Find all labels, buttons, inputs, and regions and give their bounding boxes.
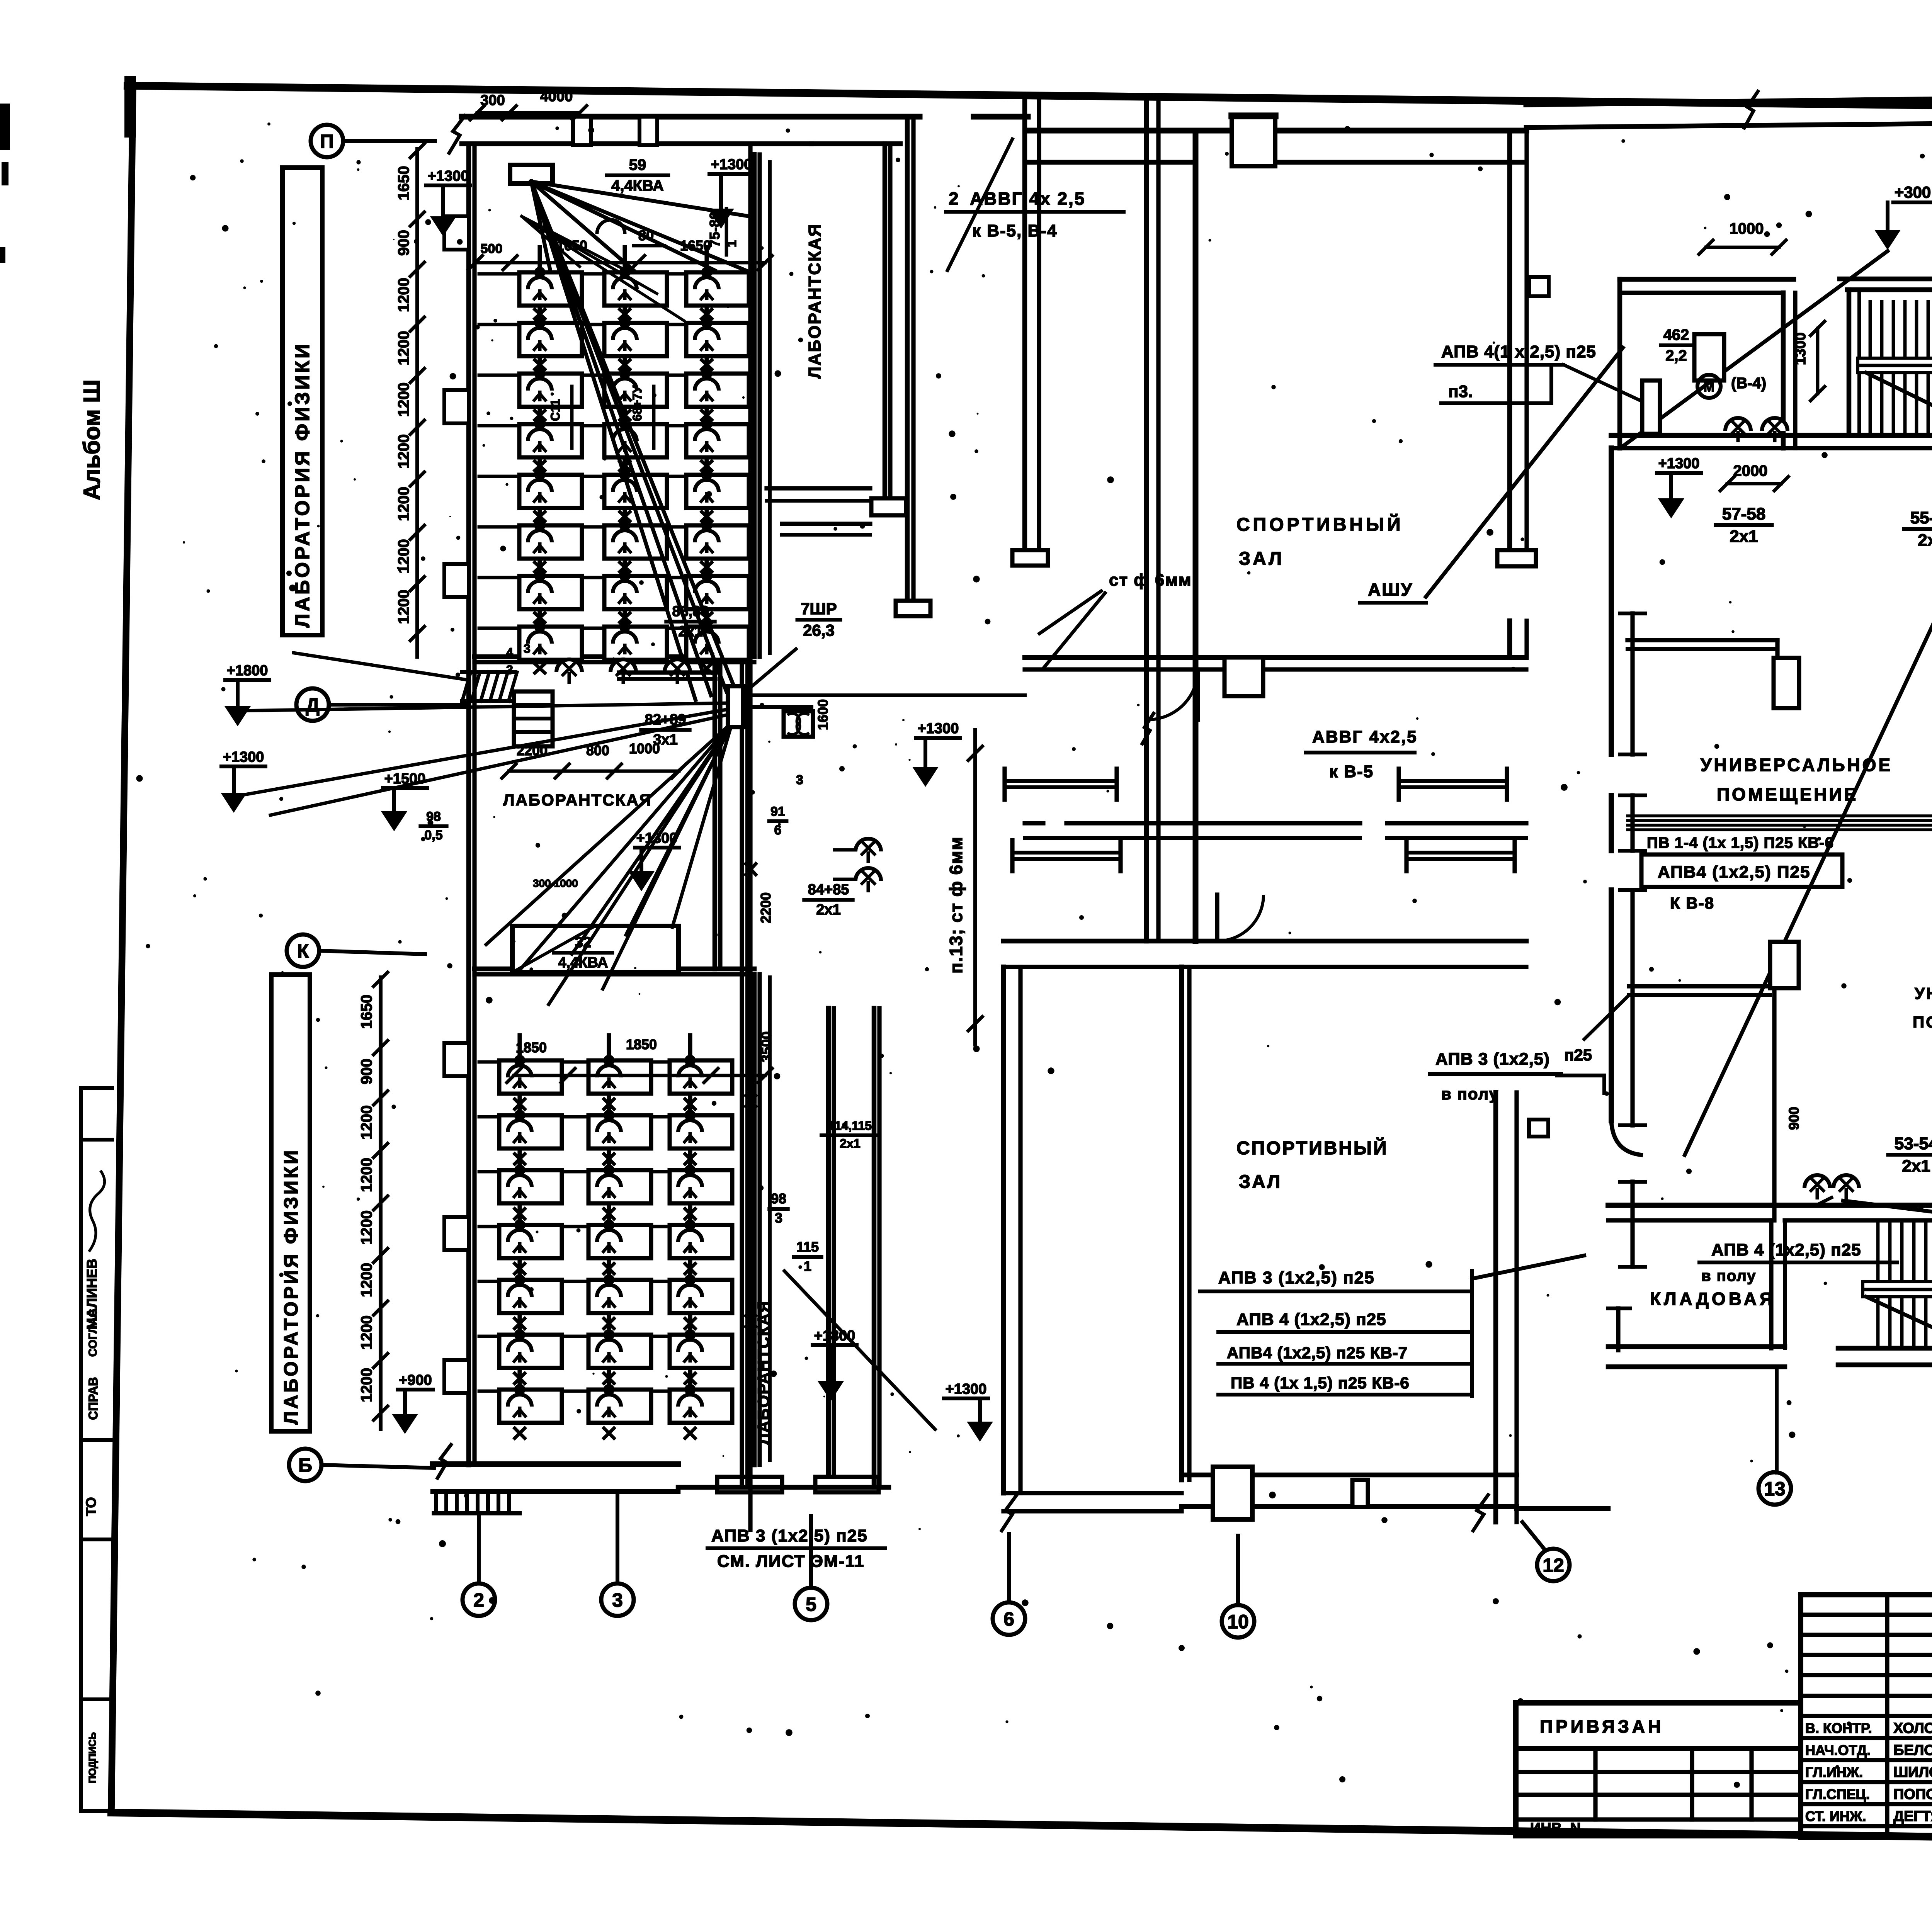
svg-text:К В-8: К В-8 [1670,894,1714,912]
svg-text:АПВ 4 (1х2,5) п25: АПВ 4 (1х2,5) п25 [1711,1240,1861,1259]
svg-text:462: 462 [1663,326,1689,343]
svg-text:+1300: +1300 [918,720,959,737]
svg-text:6: 6 [1003,1608,1014,1630]
svg-text:1650: 1650 [395,166,412,200]
svg-text:4,4КВА: 4,4КВА [611,177,664,194]
svg-text:3: 3 [506,663,513,677]
svg-text:+1300: +1300 [428,168,469,184]
svg-text:3: 3 [775,1210,782,1226]
svg-text:Д: Д [306,694,320,716]
svg-text:М: М [1704,380,1714,395]
svg-text:4000: 4000 [540,88,573,105]
svg-text:2: 2 [473,1589,484,1611]
svg-text:26,3: 26,3 [803,621,835,639]
svg-text:К: К [297,940,309,962]
svg-text:500: 500 [481,241,503,256]
svg-text:1200: 1200 [358,1263,375,1297]
svg-text:АПВ 3 (1х2,5): АПВ 3 (1х2,5) [1435,1050,1550,1069]
svg-text:ГЛ.ИНЖ.: ГЛ.ИНЖ. [1805,1764,1863,1780]
svg-text:ТО: ТО [83,1497,99,1516]
svg-text:800: 800 [586,742,609,758]
svg-text:1200: 1200 [358,1315,375,1350]
svg-text:7ШР: 7ШР [801,600,837,618]
svg-text:88,83: 88,83 [672,603,709,620]
svg-text:АПВ 4 (1х2,5) п25: АПВ 4 (1х2,5) п25 [1236,1310,1386,1329]
svg-text:13: 13 [1764,1478,1786,1500]
svg-text:ПОМЕЩЕНИЕ: ПОМЕЩЕНИЕ [1913,1013,1932,1031]
svg-text:СПОРТИВНЫЙ: СПОРТИВНЫЙ [1236,514,1404,535]
svg-text:+1300: +1300 [946,1381,987,1397]
svg-text:АПВ 3 (1х2,5) п25: АПВ 3 (1х2,5) п25 [1218,1268,1375,1287]
svg-text:53-54: 53-54 [1895,1134,1932,1153]
svg-text:3: 3 [612,1589,623,1611]
svg-text:В. КОНТР.: В. КОНТР. [1805,1720,1872,1736]
svg-text:1200: 1200 [395,487,412,521]
svg-text:68+7У: 68+7У [630,385,644,421]
svg-text:59: 59 [629,156,646,173]
svg-text:3: 3 [796,773,803,787]
svg-text:АПВ4 (1х2,5) П25: АПВ4 (1х2,5) П25 [1658,863,1811,882]
svg-text:ШИЛОВ: ШИЛОВ [1893,1764,1932,1780]
svg-text:2х1: 2х1 [1902,1157,1930,1176]
svg-text:1650: 1650 [358,995,375,1029]
svg-text:БЕЛОВ: БЕЛОВ [1893,1742,1932,1758]
svg-text:3: 3 [524,642,531,656]
svg-text:п25: п25 [1564,1046,1592,1064]
svg-text:1000: 1000 [629,741,660,756]
svg-text:УНИВЕРСАЛЬНОЕ: УНИВЕРСАЛЬНОЕ [1701,755,1893,775]
svg-text:1600: 1600 [815,699,831,730]
svg-text:1200: 1200 [395,434,412,469]
svg-text:1850: 1850 [516,1040,547,1055]
svg-text:СПОРТИВНЫЙ: СПОРТИВНЫЙ [1236,1137,1388,1159]
svg-text:1200: 1200 [358,1368,375,1402]
svg-text:1200: 1200 [395,331,412,365]
svg-text:115: 115 [796,1239,819,1255]
svg-text:32: 32 [575,934,591,951]
svg-text:ЛАБОРАНТСКАЯ: ЛАБОРАНТСКАЯ [805,223,824,379]
svg-text:ГЛ.СПЕЦ.: ГЛ.СПЕЦ. [1805,1786,1870,1802]
svg-text:ЛАБОРАНТСКАЯ: ЛАБОРАНТСКАЯ [754,1300,772,1445]
svg-text:ПОДПИСЬ: ПОДПИСЬ [87,1732,98,1783]
svg-text:2х1: 2х1 [816,902,840,918]
svg-text:П: П [320,131,334,152]
svg-text:ПВ 1-4 (1х 1,5) П25 КВ-6: ПВ 1-4 (1х 1,5) П25 КВ-6 [1647,834,1834,851]
svg-text:СОГЛАС: СОГЛАС [87,1309,99,1357]
svg-text:ЛАБОРАНТСКАЯ: ЛАБОРАНТСКАЯ [503,791,652,809]
svg-text:1: 1 [804,1258,811,1274]
svg-text:900: 900 [358,1058,375,1084]
svg-text:4: 4 [506,646,513,659]
svg-text:2х1: 2х1 [678,624,702,640]
svg-text:АВВГ 4х2,5: АВВГ 4х2,5 [1312,727,1418,746]
svg-text:СПРАВ: СПРАВ [86,1377,100,1420]
svg-text:ПОПОВА: ПОПОВА [1893,1786,1932,1803]
svg-text:2х1: 2х1 [1730,527,1758,546]
svg-text:10: 10 [1227,1611,1249,1633]
svg-text:+1800: +1800 [227,663,268,679]
svg-text:С11: С11 [548,399,562,421]
svg-text:п3.: п3. [1448,382,1473,401]
svg-text:АШУ: АШУ [1368,579,1413,600]
svg-text:в полу: в полу [1441,1085,1499,1103]
svg-text:84+85: 84+85 [808,882,849,898]
svg-text:2х1: 2х1 [1918,531,1932,550]
svg-text:0,5: 0,5 [424,828,442,843]
svg-text:ЗАЛ: ЗАЛ [1239,549,1284,569]
svg-text:1850: 1850 [626,1036,657,1052]
svg-text:+1300: +1300 [711,156,752,173]
svg-text:300 1000: 300 1000 [533,877,578,889]
svg-text:900: 900 [395,230,412,256]
svg-text:2,2: 2,2 [1665,347,1687,364]
svg-text:1200: 1200 [358,1210,375,1245]
svg-text:1000: 1000 [1730,220,1764,237]
svg-text:ХОЛОПОВА: ХОЛОПОВА [1893,1720,1932,1736]
svg-text:п.13; ст ф 6мм: п.13; ст ф 6мм [946,836,966,973]
svg-text:+1800: +1800 [814,1328,855,1344]
svg-text:2: 2 [949,189,959,209]
svg-text:АПВ 4(1 х 2,5) п25: АПВ 4(1 х 2,5) п25 [1441,342,1596,361]
svg-text:57-58: 57-58 [1722,505,1766,523]
svg-text:ЛАБОРАТОРИЯ ФИЗИКИ: ЛАБОРАТОРИЯ ФИЗИКИ [291,341,314,628]
svg-text:ЗАЛ: ЗАЛ [1239,1172,1282,1192]
svg-text:98: 98 [771,1191,786,1206]
svg-text:ст ф 6мм: ст ф 6мм [1109,571,1192,590]
svg-text:(В-4): (В-4) [1731,375,1766,392]
svg-text:1300: 1300 [1793,332,1809,365]
svg-text:4,4КВА: 4,4КВА [558,955,608,971]
svg-text:АПВ4 (1х2,5) п25 КВ-7: АПВ4 (1х2,5) п25 КВ-7 [1227,1344,1408,1362]
svg-text:СТ. ИНЖ.: СТ. ИНЖ. [1805,1808,1866,1824]
svg-text:82+89: 82+89 [645,712,686,728]
svg-text:114,115: 114,115 [828,1119,872,1133]
svg-text:1200: 1200 [395,590,412,624]
svg-text:+900: +900 [399,1372,432,1388]
svg-text:ДЕГТЯРЬ: ДЕГТЯРЬ [1893,1808,1932,1825]
svg-text:55-56: 55-56 [1910,508,1932,527]
svg-text:+1300: +1300 [1658,455,1700,472]
svg-text:Альбом Ш: Альбом Ш [79,379,105,500]
svg-text:1200: 1200 [395,278,412,312]
svg-text:1200: 1200 [358,1105,375,1140]
svg-text:5: 5 [806,1594,816,1615]
svg-text:2000: 2000 [1733,462,1768,479]
svg-text:УНИВЕРСАЛЬНОЕ: УНИВЕРСАЛЬНОЕ [1915,984,1932,1002]
svg-text:АПВ 3 (1х2,5) п25: АПВ 3 (1х2,5) п25 [711,1526,868,1545]
svg-text:80: 80 [638,228,654,243]
svg-text:ПРИВЯЗАН: ПРИВЯЗАН [1540,1716,1664,1736]
svg-text:ЛАБОРАТОРИЯ ФИЗИКИ: ЛАБОРАТОРИЯ ФИЗИКИ [280,1148,302,1425]
svg-text:2х1: 2х1 [840,1137,860,1150]
svg-text:СМ. ЛИСТ ЭМ-11: СМ. ЛИСТ ЭМ-11 [717,1552,865,1571]
svg-text:ПОМЕЩЕНИЕ: ПОМЕЩЕНИЕ [1717,784,1858,804]
svg-text:2200: 2200 [517,742,548,758]
svg-text:+1300: +1300 [636,830,678,846]
svg-text:в полу: в полу [1701,1267,1756,1284]
svg-text:12: 12 [1543,1555,1564,1576]
svg-text:Б: Б [298,1454,312,1476]
svg-text:+1300: +1300 [223,749,264,765]
svg-text:ИНВ. N: ИНВ. N [1530,1820,1581,1837]
svg-text:1200: 1200 [395,382,412,417]
svg-text:+300: +300 [1895,183,1931,201]
svg-text:НАЧ.ОТД.: НАЧ.ОТД. [1805,1742,1871,1758]
svg-text:1650: 1650 [680,238,711,253]
svg-text:к В-5: к В-5 [1329,762,1374,781]
svg-text:900: 900 [1786,1107,1802,1130]
svg-text:2200: 2200 [758,892,774,923]
svg-text:1200: 1200 [358,1158,375,1192]
svg-text:91: 91 [770,804,785,819]
svg-text:1: 1 [724,240,739,247]
svg-text:3500: 3500 [759,1031,774,1062]
svg-text:к В-5, В-4: к В-5, В-4 [972,221,1058,240]
svg-text:КЛАДОВАЯ: КЛАДОВАЯ [1650,1289,1776,1309]
svg-text:ПВ 4 (1х 1,5) п25 КВ-6: ПВ 4 (1х 1,5) п25 КВ-6 [1231,1374,1410,1392]
